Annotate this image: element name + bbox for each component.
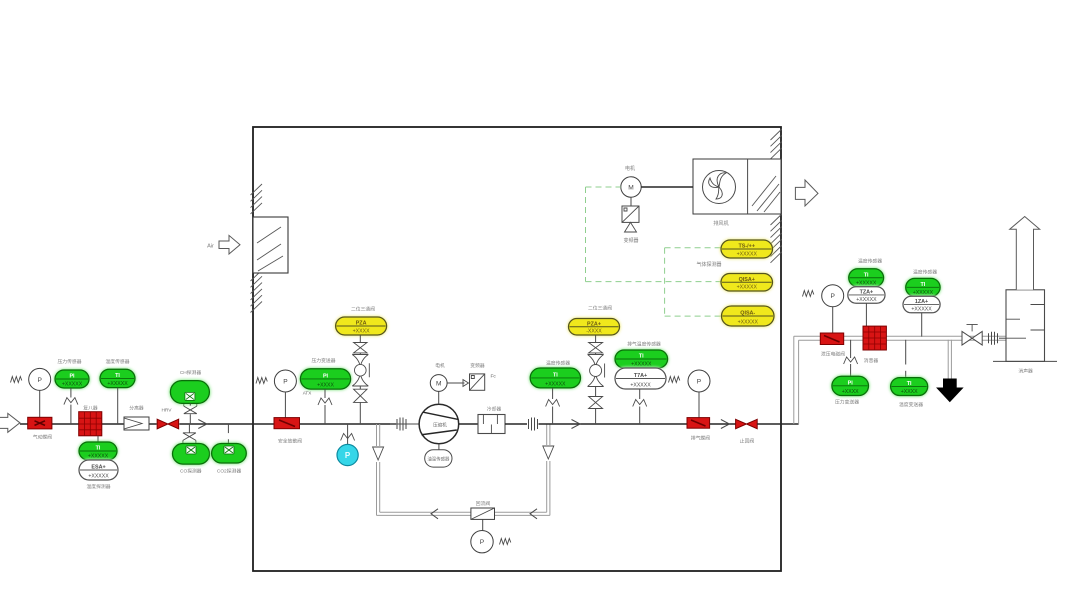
svg-text:气体探测器: 气体探测器	[696, 261, 721, 268]
wire pill I2 down	[552, 388, 554, 399]
svg-text:+XXXXX: +XXXXX	[911, 306, 932, 312]
discharge check valve (red bowtie)	[736, 419, 758, 428]
discharge riser pipe	[793, 336, 795, 424]
instrument tag TI pill R4	[891, 378, 928, 396]
discharge header pipe	[794, 335, 1006, 337]
pressure gauge PG4 capillary	[803, 291, 814, 297]
solenoid pilot above line	[184, 404, 197, 414]
vent up arrow	[1010, 217, 1040, 290]
vent solenoid valve (red box)	[820, 333, 843, 345]
svg-text:TI: TI	[907, 381, 912, 387]
wire T7A pill down	[639, 389, 641, 399]
svg-text:+XXXXX: +XXXXX	[913, 290, 934, 296]
wire M2 to inverter U2	[447, 380, 468, 387]
discharge bellows	[528, 419, 530, 429]
svg-text:P: P	[345, 451, 351, 460]
svg-text:油温传感器: 油温传感器	[427, 456, 450, 463]
wire motor to fan	[641, 186, 693, 188]
svg-text:1ZA+: 1ZA+	[915, 299, 928, 305]
svg-text:+XXXXX: +XXXXX	[88, 474, 109, 480]
suction buffer (red grid box)	[79, 412, 102, 436]
svg-text:TI: TI	[553, 373, 558, 379]
svg-text:ESA+: ESA+	[91, 465, 105, 471]
exhaust fan box	[693, 159, 781, 214]
wire buffer to pills below	[97, 436, 99, 442]
svg-text:回流阀: 回流阀	[476, 500, 491, 507]
instrument tag ESA+ pill	[79, 460, 118, 480]
pressure gauge PG3 capillary	[669, 377, 680, 383]
svg-text:排气温度传感器: 排气温度传感器	[627, 341, 661, 348]
instrument tag PI pill L1	[55, 370, 89, 388]
line valve to riser	[757, 423, 798, 425]
right wall hatching below fan box	[771, 214, 782, 225]
svg-text:PZA: PZA	[356, 321, 367, 327]
svg-text:P: P	[283, 378, 288, 385]
svg-text:变频器: 变频器	[623, 237, 638, 244]
svg-text:排气蝶阀: 排气蝶阀	[691, 435, 710, 442]
svg-text:二位三通阀: 二位三通阀	[588, 305, 612, 312]
svg-text:分离器: 分离器	[129, 404, 144, 411]
wire TZA to muffler	[865, 303, 867, 326]
svg-text:ATX: ATX	[303, 391, 312, 396]
discharge gate valve	[962, 331, 982, 345]
instrument tag TI pill I2	[530, 368, 580, 388]
sample symbol under L1	[64, 398, 78, 405]
vent symbol under I1	[318, 398, 332, 405]
svg-text:电机: 电机	[435, 362, 445, 369]
svg-text:复八器: 复八器	[83, 404, 98, 411]
svg-text:+XXXXX: +XXXXX	[856, 280, 877, 286]
svg-text:PZA+: PZA+	[587, 321, 601, 327]
CO detector pill	[173, 444, 210, 465]
wire to CO2 detector	[227, 424, 229, 433]
svg-text:+XXXXX: +XXXXX	[62, 382, 83, 388]
line to check valve	[710, 423, 736, 425]
svg-text:TI: TI	[864, 272, 869, 278]
line cooler to bellows2	[505, 423, 527, 425]
svg-text:温度探测器: 温度探测器	[87, 483, 111, 490]
svg-text:压力传感器: 压力传感器	[58, 358, 82, 365]
flow direction chevron 1	[198, 420, 207, 429]
wire gas-detector dashed main	[586, 281, 722, 283]
svg-text:P: P	[480, 539, 485, 546]
svg-text:PI: PI	[69, 374, 75, 380]
svg-text:CO2探测器: CO2探测器	[217, 468, 241, 475]
svg-text:TZA+: TZA+	[860, 290, 874, 296]
svg-text:M: M	[436, 380, 442, 387]
enclosure box wall	[253, 127, 781, 571]
discharge line to cooler	[459, 423, 478, 425]
instrument tag TS pill	[721, 240, 773, 258]
svg-text:CH探测器: CH探测器	[180, 369, 202, 376]
svg-text:TI: TI	[921, 282, 926, 288]
process inlet arrow	[0, 413, 20, 432]
inverter output triangle	[625, 222, 637, 232]
svg-text:+XXXX: +XXXX	[842, 389, 859, 395]
instrument tag QISA+ pill	[721, 274, 773, 292]
wire gas-detector branch up	[664, 248, 666, 316]
instrument tag TI pill under buffer	[79, 442, 117, 460]
instrument tag TZA+ pill	[848, 287, 885, 304]
svg-text:Fc: Fc	[491, 374, 497, 380]
svg-text:+XXXX: +XXXX	[317, 383, 334, 389]
svg-text:温度传感器: 温度传感器	[858, 258, 882, 265]
instrument tag QISA- pill	[722, 306, 775, 326]
discharge butterfly valve (red box)	[687, 418, 710, 429]
wire PG4 down	[832, 307, 834, 333]
svg-text:M: M	[628, 184, 634, 191]
svg-text:变频器: 变频器	[470, 362, 485, 369]
inverter U2	[470, 374, 485, 390]
anti-surge control valve stack 2	[595, 335, 597, 343]
wire motor to inverter	[630, 197, 632, 206]
left wall hatching above louver	[251, 184, 263, 195]
svg-text:T7A+: T7A+	[634, 373, 647, 379]
pressure gauge PG2 capillary	[256, 378, 267, 384]
fan impeller	[703, 171, 736, 204]
svg-text:P: P	[697, 378, 702, 385]
svg-text:二位三通阀: 二位三通阀	[351, 306, 375, 313]
compressor motor M2	[438, 391, 440, 404]
svg-text:+XXXXX: +XXXXX	[545, 382, 566, 388]
flow direction chevron 2	[572, 420, 581, 429]
instrument tag T7A+ pill	[615, 368, 666, 389]
suction control valve HRV (red bowtie)	[157, 419, 179, 429]
bypass check valve right	[542, 445, 557, 461]
instrument tag TI pill R2	[906, 278, 940, 296]
vessel base line	[993, 360, 1057, 362]
wire pill L2 down	[117, 388, 119, 424]
Air inlet arrow	[219, 235, 240, 254]
svg-text:+XXXXX: +XXXXX	[107, 381, 128, 387]
wire gas-detector branch down	[665, 315, 722, 317]
svg-text:排风机: 排风机	[713, 219, 729, 227]
cyan pressure transmitter	[347, 424, 349, 445]
wire PG2 down	[284, 392, 286, 418]
solenoid tag PZA+ pill Y2	[569, 319, 620, 336]
right wall hatching above fan box	[771, 129, 782, 140]
left wall hatching below louver	[251, 270, 263, 281]
svg-text:TI: TI	[639, 354, 644, 360]
svg-text:QISA-: QISA-	[740, 311, 755, 317]
svg-text:+XXXXX: +XXXXX	[738, 320, 759, 326]
wire PG1 to inlet valve	[39, 390, 41, 417]
svg-text:冷却器: 冷却器	[487, 405, 502, 412]
svg-text:压力变送器: 压力变送器	[312, 357, 336, 364]
svg-text:消声器: 消声器	[1018, 368, 1033, 375]
svg-text:+XXXXX: +XXXXX	[737, 285, 758, 291]
pressure gauge PG3	[688, 370, 710, 392]
bypass flow arrow right	[530, 509, 537, 519]
CH detector pill	[170, 381, 209, 404]
main suction line	[20, 423, 28, 425]
motor M1	[621, 177, 641, 197]
svg-text:温度传感器: 温度传感器	[106, 358, 130, 365]
separator	[124, 417, 149, 430]
wire pipe down to PI pill R3	[850, 340, 852, 358]
vent silencer vessel	[1006, 290, 1045, 362]
svg-text:PI: PI	[848, 380, 854, 386]
inverter U1	[622, 206, 639, 222]
oil temperature sensor oval	[438, 444, 440, 450]
bypass pipe right vertical	[549, 424, 551, 515]
safety vent valve (red box)	[274, 418, 300, 429]
svg-text:TI: TI	[115, 373, 120, 379]
svg-text:TI: TI	[96, 446, 101, 452]
svg-text:HRV: HRV	[161, 408, 172, 414]
air outlet arrow	[795, 180, 818, 206]
bypass pipe left vertical	[376, 424, 378, 515]
instrument tag TI pill L2	[100, 369, 135, 387]
flow direction chevron 3	[721, 420, 730, 429]
svg-text:TS-/++: TS-/++	[739, 244, 755, 250]
anti-surge control valve stack 1	[359, 335, 361, 343]
instrument tag PI pill I1	[300, 369, 350, 389]
svg-text:+XXXX: +XXXX	[901, 389, 918, 395]
suction bellows	[390, 423, 419, 425]
inlet butterfly valve (red box)	[28, 417, 52, 429]
pressure gauge PG4	[822, 285, 844, 307]
svg-text:温度传感器: 温度传感器	[546, 360, 570, 367]
svg-text:QISA+: QISA+	[739, 277, 755, 283]
aftercooler	[478, 415, 505, 434]
svg-text:温度传感器: 温度传感器	[913, 269, 937, 276]
svg-text:+XXXXX: +XXXXX	[856, 297, 877, 303]
solenoid pilot below line	[183, 433, 196, 443]
wire pill L1 down	[70, 388, 72, 398]
wire 1ZA down to pipe	[921, 313, 923, 337]
svg-text:+XXXX: +XXXX	[353, 329, 370, 335]
svg-text:电机: 电机	[625, 165, 635, 172]
svg-text:止回阀: 止回阀	[740, 438, 755, 445]
svg-text:泄压电磁阀: 泄压电磁阀	[821, 351, 845, 358]
air inlet louver	[253, 217, 288, 273]
svg-text:Air: Air	[207, 244, 214, 250]
bypass pressure controller	[471, 531, 493, 553]
instrument tag PI pill R3	[832, 376, 869, 395]
svg-text:P: P	[830, 293, 835, 300]
discharge muffler (red grid box)	[863, 326, 886, 350]
svg-text:+XXXXX: +XXXXX	[737, 252, 758, 258]
blowdown branch pipe	[947, 340, 949, 379]
controller capillary	[500, 539, 511, 545]
pressure gauge PG2	[274, 370, 296, 392]
CO2 detector pill	[212, 444, 247, 464]
wire bypass valve to controller	[482, 519, 484, 530]
svg-text:-XXXX: -XXXX	[586, 329, 602, 335]
svg-text:压缩机: 压缩机	[433, 422, 447, 429]
svg-text:压力变送器: 压力变送器	[835, 399, 859, 406]
instrument tag TI pill R1	[849, 269, 884, 287]
compressor C1	[419, 404, 459, 444]
instrument tag 1ZA+ pill	[903, 296, 940, 313]
main line inside box	[253, 423, 396, 425]
bypass pipe bottom	[377, 514, 550, 516]
svg-text:温度变送器: 温度变送器	[899, 401, 923, 408]
svg-text:+XXXXX: +XXXXX	[88, 454, 109, 460]
bypass flow arrow left	[431, 509, 438, 519]
svg-text:+XXXXX: +XXXXX	[630, 383, 651, 389]
instrument tag TI pill I3	[615, 350, 668, 368]
svg-text:气动蝶阀: 气动蝶阀	[33, 434, 52, 441]
pressure gauge PG1	[29, 368, 51, 390]
svg-text:+XXXXX: +XXXXX	[631, 362, 652, 368]
blowdown arrow (black)	[937, 379, 962, 402]
svg-text:安全放散阀: 安全放散阀	[278, 438, 302, 445]
svg-text:PI: PI	[323, 374, 329, 380]
bypass check valve left	[372, 446, 387, 462]
wire pill I1 down	[324, 389, 326, 398]
svg-text:CO探测器: CO探测器	[180, 468, 202, 475]
solenoid tag PZA pill Y1	[336, 317, 387, 335]
svg-text:消音器: 消音器	[864, 357, 879, 364]
bypass valve	[471, 508, 495, 519]
pressure gauge PG1 capillary	[11, 377, 22, 383]
bracket symbol CO2	[220, 438, 222, 440]
discharge bellows 3	[988, 333, 990, 343]
wire PG3 down	[698, 392, 700, 418]
svg-text:P: P	[37, 377, 42, 384]
wire pipe down to TI pill R4	[905, 340, 907, 365]
